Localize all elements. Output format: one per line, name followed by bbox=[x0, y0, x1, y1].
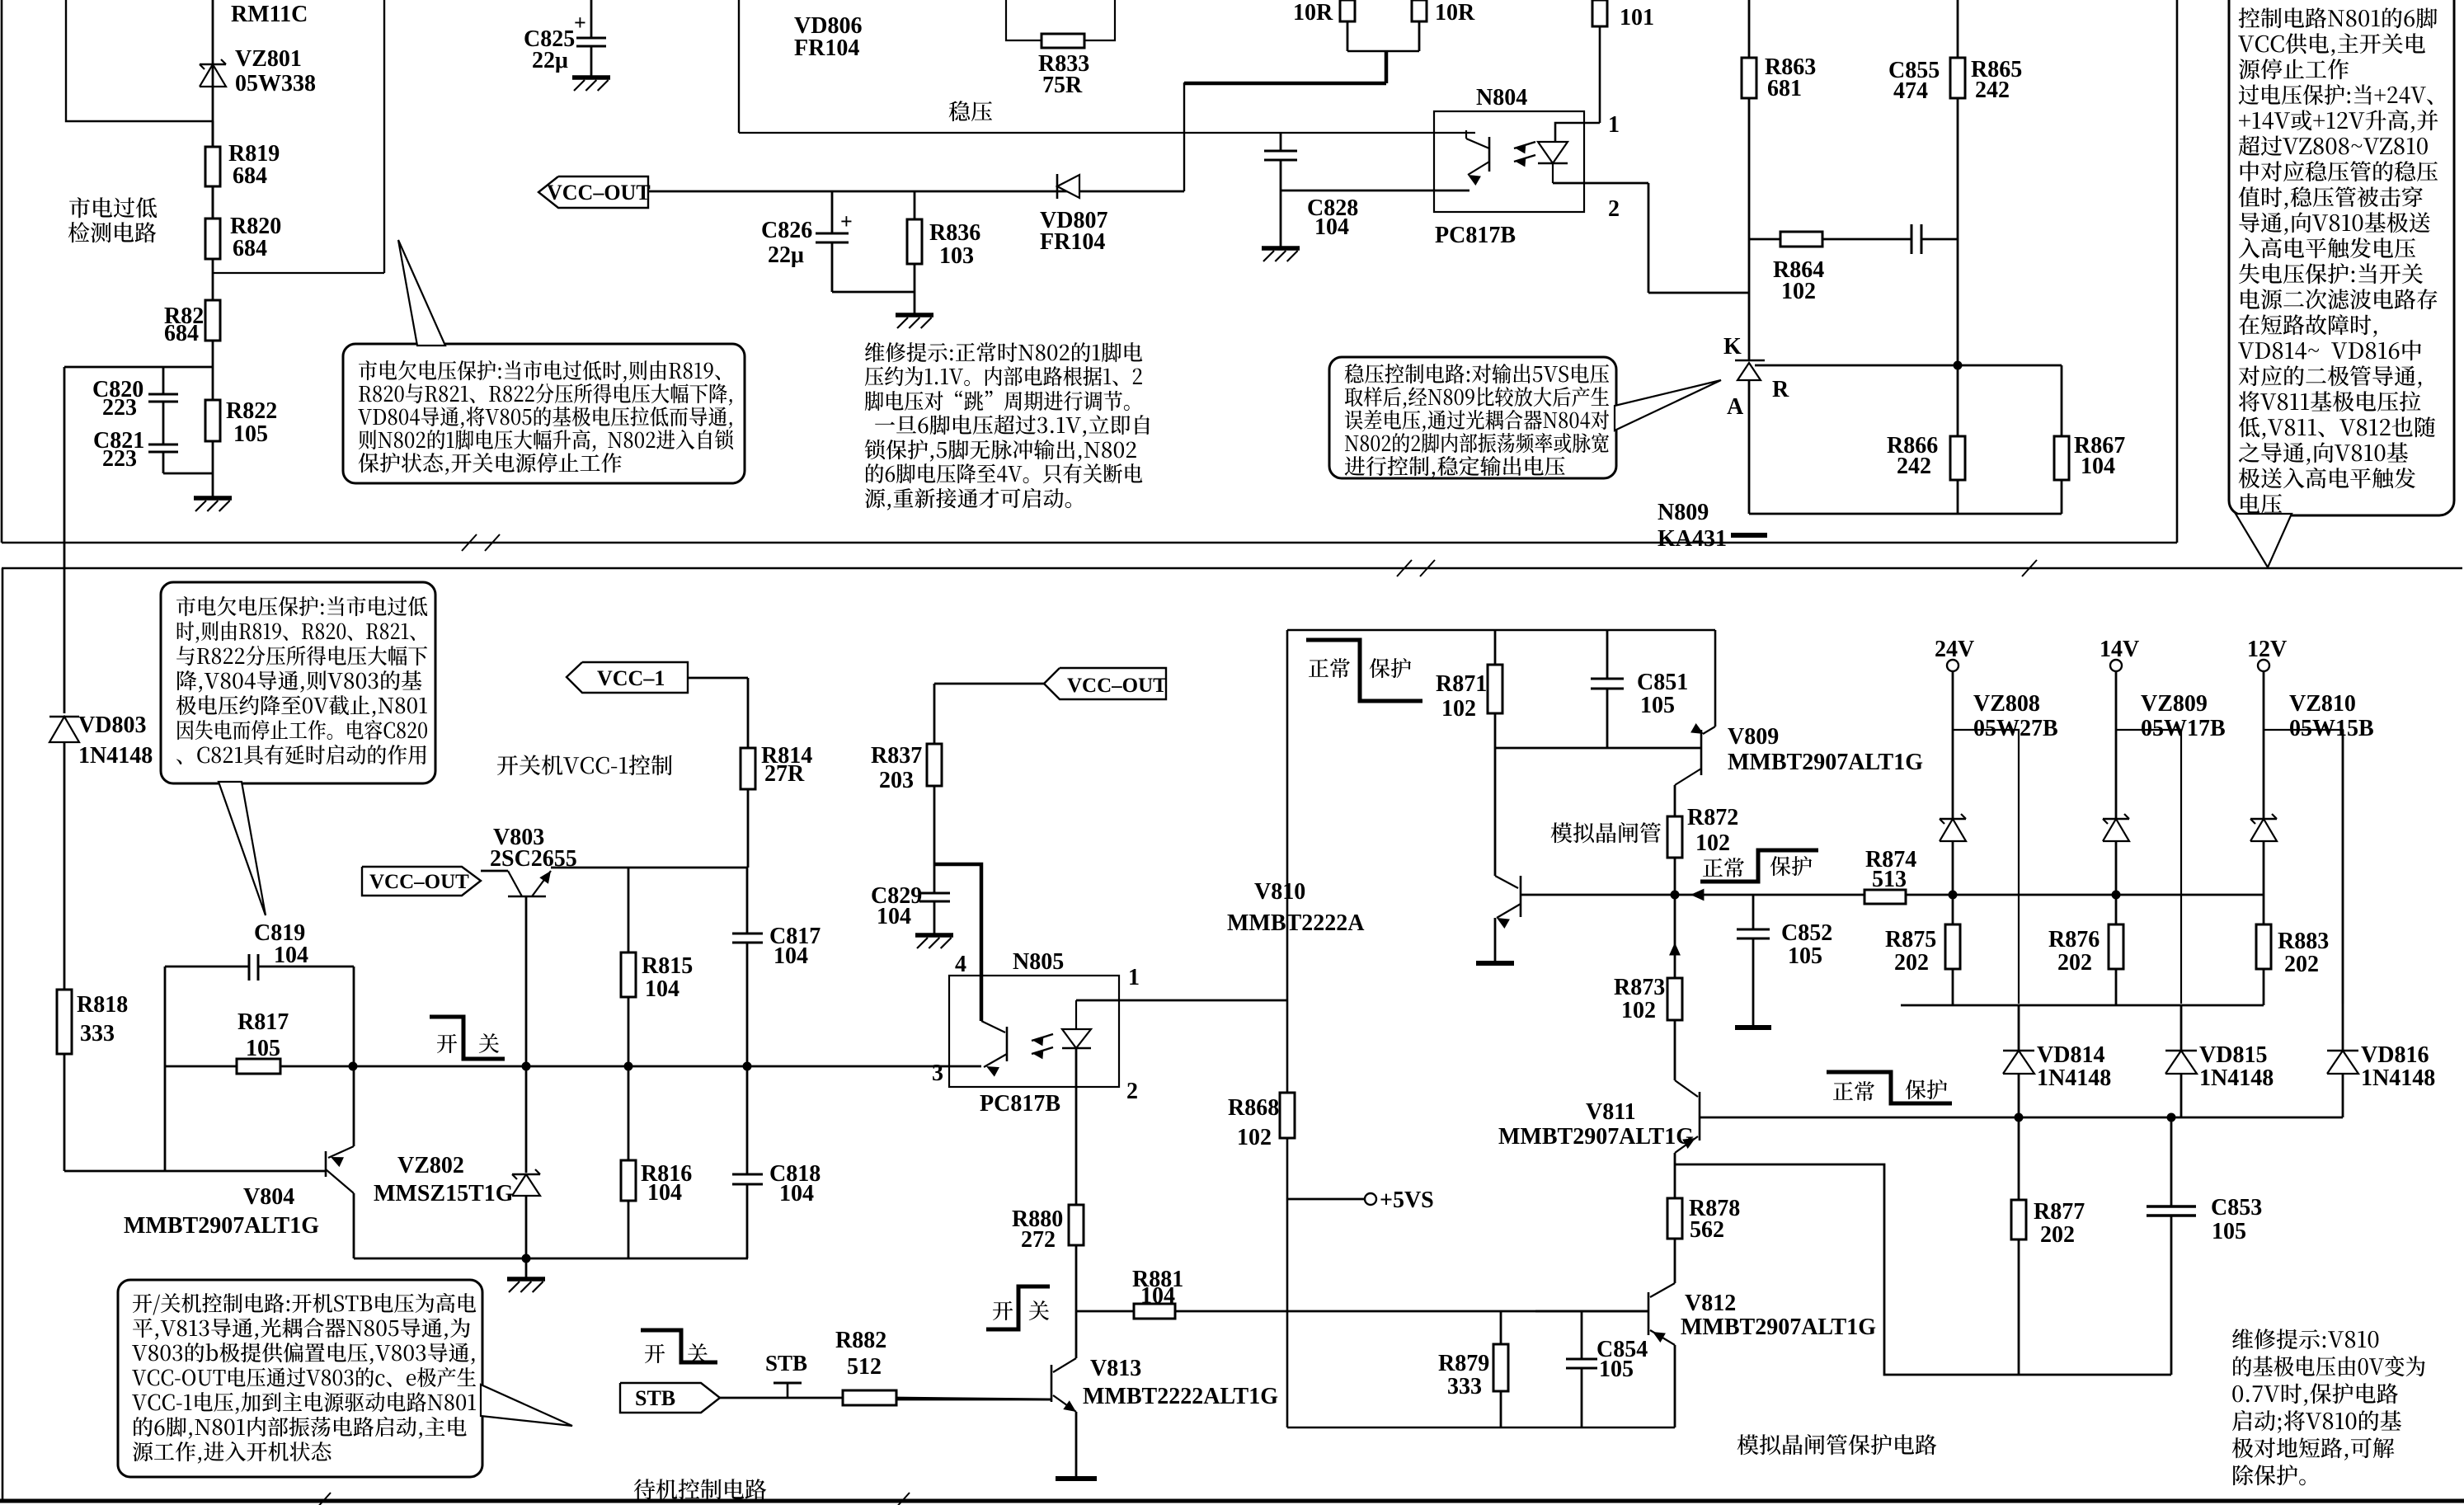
resistor R872 bbox=[1667, 816, 1682, 858]
bubble: top undervoltage protection note bbox=[343, 344, 745, 483]
zener VZ810 bbox=[2250, 818, 2277, 821]
svg-text:R873: R873 bbox=[1614, 975, 1665, 1000]
text: VD814~ VD816中 bbox=[2238, 340, 2421, 360]
svg-text:22μ: 22μ bbox=[768, 242, 804, 268]
resistor R819 bbox=[212, 121, 214, 147]
svg-text:05W27B: 05W27B bbox=[1973, 716, 2058, 741]
switch wire bbox=[353, 1065, 981, 1068]
text: 超过VZ808~VZ810 bbox=[2239, 135, 2428, 156]
svg-text:202: 202 bbox=[1894, 950, 1929, 976]
text: 平,V813导通,光耦合器N805导 bbox=[133, 1318, 470, 1340]
text: VD804导通,将V805的基极电压 bbox=[358, 407, 732, 429]
svg-text:VD803: VD803 bbox=[78, 713, 146, 738]
resistor R875 bbox=[1952, 895, 1954, 924]
text: +14V或+12V升高,并 bbox=[2239, 110, 2438, 133]
text: 电压 bbox=[2241, 493, 2282, 514]
flag VCC-1 bbox=[567, 662, 688, 693]
svg-text:202: 202 bbox=[2057, 950, 2092, 976]
text: 保护 bbox=[1770, 856, 1813, 876]
svg-text:104: 104 bbox=[774, 943, 808, 969]
text: 源工作,进入开机状态 bbox=[133, 1442, 332, 1464]
svg-text:1N4148: 1N4148 bbox=[78, 743, 153, 769]
resistor R874 bbox=[1864, 890, 1906, 904]
R881 wire right bbox=[1175, 1310, 1648, 1313]
svg-text:05W15B: 05W15B bbox=[2289, 716, 2374, 741]
text: 在短路故障时, bbox=[2239, 314, 2377, 337]
svg-text:+5VS: +5VS bbox=[1380, 1188, 1434, 1213]
bottom wire KA431 network bbox=[1749, 513, 2062, 515]
junction dot bbox=[1954, 361, 1963, 370]
text: 关 bbox=[1029, 1300, 1049, 1320]
text: R820与R821、R822分压所得 bbox=[359, 383, 732, 406]
svg-text:R875: R875 bbox=[1885, 927, 1936, 952]
svg-text:V804: V804 bbox=[243, 1184, 294, 1210]
svg-text:VZ810: VZ810 bbox=[2289, 691, 2356, 717]
step symbol 正常保护 #C bbox=[1827, 1072, 1952, 1103]
svg-text:27R: 27R bbox=[764, 761, 805, 787]
svg-text:242: 242 bbox=[1975, 78, 2010, 103]
N805 phototransistor bbox=[981, 1021, 1005, 1032]
capacitor C818 bbox=[746, 1066, 749, 1174]
svg-text:KA431: KA431 bbox=[1658, 526, 1727, 552]
svg-text:FR104: FR104 bbox=[794, 35, 859, 61]
svg-text:562: 562 bbox=[1690, 1217, 1724, 1243]
bubble tail 2 bbox=[1615, 380, 1721, 430]
svg-text:10R: 10R bbox=[1293, 0, 1333, 26]
svg-text:VD816: VD816 bbox=[2361, 1042, 2429, 1068]
text: 的6脚电压降至4V。只有关断电 bbox=[866, 463, 1142, 483]
junction dots sense wire bbox=[1949, 891, 1958, 900]
svg-text:C851: C851 bbox=[1637, 670, 1688, 695]
wire: main divider column top bbox=[212, 0, 214, 147]
svg-text:223: 223 bbox=[102, 446, 137, 472]
svg-text:1N4148: 1N4148 bbox=[2037, 1065, 2111, 1091]
resistor R833 bbox=[1042, 34, 1084, 48]
VZ802 zener bbox=[525, 1066, 528, 1173]
svg-text:512: 512 bbox=[847, 1354, 882, 1380]
svg-text:102: 102 bbox=[1781, 279, 1816, 304]
text: 正常 bbox=[1703, 858, 1744, 877]
V810 base wire / sense wire bbox=[1521, 894, 2264, 896]
svg-text:474: 474 bbox=[1893, 78, 1928, 104]
ground below R836 bbox=[896, 313, 933, 317]
svg-text:R836: R836 bbox=[929, 220, 980, 246]
diode VD814 bbox=[2018, 1005, 2020, 1051]
STB wire bbox=[720, 1397, 843, 1399]
N805 pin2 wire bbox=[1075, 1048, 1078, 1205]
text: 进行控制,稳定输出电压 bbox=[1345, 456, 1565, 478]
wire: VCC-OUT main bbox=[648, 190, 1184, 193]
resistor R837 bbox=[934, 683, 1044, 685]
branch corner 14V bbox=[2116, 730, 2181, 1004]
svg-text:681: 681 bbox=[1767, 76, 1802, 101]
ground VZ802 bbox=[525, 1258, 528, 1279]
svg-text:1: 1 bbox=[1608, 112, 1620, 138]
svg-text:MMSZ15T1G: MMSZ15T1G bbox=[374, 1181, 514, 1206]
ground below C825 bbox=[572, 75, 610, 80]
svg-text:102: 102 bbox=[1237, 1125, 1272, 1150]
text: 开 bbox=[437, 1034, 457, 1053]
svg-text:STB: STB bbox=[635, 1386, 675, 1410]
text: 、C821具有延时启动的作用 bbox=[176, 745, 426, 764]
svg-text:684: 684 bbox=[233, 236, 267, 261]
text: 对应的二极管导通, bbox=[2239, 365, 2422, 388]
wire: N804 pin4 collector wire bbox=[1474, 130, 1476, 133]
capacitor C825 branch bbox=[590, 0, 593, 38]
branch corner 12V bbox=[2264, 730, 2343, 1004]
text: 开/关机控制电路:开机STB电压为高 bbox=[133, 1293, 476, 1315]
step symbol 开关 #2 bbox=[986, 1286, 1050, 1329]
resistor R878 bbox=[1667, 1198, 1682, 1239]
text: 模拟晶闸管保护电路 bbox=[1737, 1434, 1937, 1455]
wire: cap branch bbox=[162, 367, 165, 394]
N804 phototransistor bbox=[1465, 130, 1467, 139]
zener VZ808 bbox=[1940, 818, 1966, 821]
svg-text:223: 223 bbox=[102, 395, 137, 421]
svg-text:RM11C: RM11C bbox=[231, 2, 308, 27]
diode VD803 bbox=[49, 716, 79, 718]
text: 开 bbox=[993, 1301, 1013, 1320]
text: 维修提示:V810 bbox=[2232, 1329, 2378, 1349]
svg-text:N804: N804 bbox=[1476, 85, 1527, 111]
text: 将V811基极电压拉 bbox=[2239, 391, 2421, 412]
svg-text:105: 105 bbox=[1599, 1357, 1634, 1382]
svg-text:VZ802: VZ802 bbox=[397, 1153, 464, 1178]
wire: VD803 to R818 bbox=[63, 742, 66, 990]
svg-text:202: 202 bbox=[2284, 952, 2319, 977]
V813 base wire bbox=[896, 1399, 1051, 1401]
bus below R875/R876/R883 bbox=[1901, 1004, 2264, 1007]
resistor 101 bbox=[1599, 26, 1601, 123]
svg-text:MMBT2222A: MMBT2222A bbox=[1227, 910, 1365, 936]
svg-text:2: 2 bbox=[1608, 196, 1620, 222]
resistor R864 bbox=[1780, 232, 1822, 247]
svg-text:102: 102 bbox=[1695, 830, 1730, 856]
svg-text:PC817B: PC817B bbox=[980, 1091, 1060, 1117]
text: 极电压约降至0V截止,N801 bbox=[176, 695, 427, 717]
right rail upper segment bbox=[1714, 630, 1717, 727]
V810 collector bbox=[1494, 748, 1497, 876]
resistor R836 bbox=[914, 191, 916, 219]
bubble: on/off control note bbox=[118, 1280, 482, 1477]
C855/R865 column bbox=[1957, 0, 1959, 58]
R833 loop bbox=[1006, 0, 1042, 40]
capacitor C853 bbox=[2170, 1117, 2173, 1206]
resistor R880 bbox=[1069, 1205, 1084, 1245]
bubble tail right bbox=[2236, 514, 2292, 567]
svg-text:V809: V809 bbox=[1728, 724, 1779, 750]
text: V803的b极提供偏置电压,V803 bbox=[132, 1343, 474, 1365]
svg-text:2SC2655: 2SC2655 bbox=[490, 846, 577, 872]
text: 导通,向V810基极送 bbox=[2239, 212, 2429, 235]
V812 emitter bbox=[1650, 1330, 1675, 1345]
capacitor C854 bbox=[1581, 1311, 1583, 1359]
wire 14V bbox=[2115, 671, 2118, 819]
border: top box bottom edge bbox=[2, 542, 2177, 544]
N802 box bottom edge / collector wire bbox=[739, 132, 1475, 134]
text: 取样后,经N809比较放大后产生 bbox=[1345, 387, 1609, 409]
svg-text:104: 104 bbox=[2081, 454, 2115, 479]
ground below C829 bbox=[915, 933, 953, 938]
svg-text:684: 684 bbox=[164, 321, 199, 346]
svg-text:104: 104 bbox=[1314, 214, 1349, 240]
svg-text:333: 333 bbox=[1447, 1374, 1482, 1399]
optocoupler N805 box bbox=[949, 976, 1119, 1087]
text: 市电欠电压保护:当市电过低 bbox=[176, 596, 427, 616]
text: 因失电而停止工作。电容C820 bbox=[177, 720, 427, 740]
V811 emitter bbox=[1675, 1136, 1698, 1153]
step symbol 开关 #3 bbox=[641, 1330, 717, 1362]
sense wire arrow bbox=[1690, 889, 1704, 901]
resistor 10R #1 bbox=[1347, 21, 1349, 51]
svg-text:1N4148: 1N4148 bbox=[2199, 1065, 2274, 1091]
wire: R818 to V804 base bbox=[63, 1054, 66, 1171]
svg-text:VCC–OUT: VCC–OUT bbox=[1067, 675, 1167, 697]
svg-text:VZ801: VZ801 bbox=[235, 46, 302, 72]
resistor R867 bbox=[2061, 365, 2063, 436]
svg-text:333: 333 bbox=[80, 1021, 115, 1046]
text: N802的2脚内部振荡频率或脉宽 bbox=[1345, 433, 1609, 453]
resistor 10R #2 bbox=[1418, 21, 1421, 51]
step symbol 正常保护 #B bbox=[1700, 850, 1818, 882]
svg-text:R872: R872 bbox=[1687, 805, 1738, 830]
text: 极送入高电平触发 bbox=[2239, 468, 2415, 488]
capacitor C826 bbox=[816, 233, 849, 235]
svg-text:101: 101 bbox=[1620, 5, 1654, 31]
STB flag bbox=[620, 1383, 720, 1413]
text: 检测电路 bbox=[68, 222, 157, 242]
diode VD815 bbox=[2180, 1005, 2183, 1051]
capacitor C825 bbox=[576, 37, 606, 40]
N804 pin2 wire bbox=[1553, 182, 1648, 185]
svg-text:05W338: 05W338 bbox=[235, 71, 316, 96]
svg-text:2: 2 bbox=[1126, 1079, 1138, 1104]
wire: pin1 of N804 bbox=[1555, 123, 1600, 142]
svg-text:STB: STB bbox=[765, 1351, 807, 1376]
V810 ground bbox=[1476, 961, 1514, 966]
text: 源,重新接通才可启动。 bbox=[865, 488, 1071, 510]
capacitor C828 branch bbox=[1280, 133, 1282, 151]
resistor R820 bbox=[212, 186, 214, 219]
text: VCC供电,主开关电 bbox=[2238, 33, 2425, 56]
bubble: regulation control note bbox=[1329, 357, 1616, 478]
text: 保护 bbox=[1370, 658, 1412, 678]
node: divider junction y445 bbox=[64, 366, 213, 369]
text: 一旦6脚电压超过3.1V,立即自 bbox=[875, 415, 1150, 437]
R863 column bbox=[1748, 0, 1751, 58]
svg-text:MMBT2907ALT1G: MMBT2907ALT1G bbox=[1498, 1124, 1694, 1150]
svg-text:R871: R871 bbox=[1436, 671, 1487, 697]
border: top box right edge bbox=[2176, 0, 2179, 543]
svg-text:102: 102 bbox=[1441, 696, 1476, 722]
wire 12V bbox=[2263, 671, 2265, 819]
wire: R822 to ground bbox=[212, 473, 214, 498]
text: VCC-1电压,加到主电源驱动电路N bbox=[132, 1392, 476, 1414]
zener VZ801 bbox=[200, 63, 226, 66]
bubble tail 3 bbox=[219, 782, 266, 915]
text: 脚电压对“跳”周期进行调节。 bbox=[865, 391, 1130, 411]
transistor V813 bbox=[1051, 1365, 1053, 1402]
KA431 ground bar bbox=[1731, 533, 1767, 538]
text: 启动;将V810的基 bbox=[2232, 1410, 2401, 1433]
text: 关 bbox=[479, 1033, 499, 1053]
text: 则N802的1脚电压大幅升高, N8 bbox=[359, 430, 733, 452]
svg-text:R877: R877 bbox=[2034, 1199, 2085, 1225]
V803 base wire bbox=[525, 896, 528, 1066]
text: 电源二次滤波电路存 bbox=[2241, 289, 2437, 309]
svg-text:202: 202 bbox=[2040, 1222, 2075, 1248]
svg-text:242: 242 bbox=[1897, 454, 1931, 479]
svg-text:R817: R817 bbox=[237, 1009, 289, 1035]
flag VCC-OUT (N805) bbox=[1044, 668, 1166, 699]
N805 pin1 wire bbox=[1076, 999, 1287, 1002]
border: top box left edge bbox=[1, 0, 3, 543]
resistor R877 bbox=[2018, 1117, 2020, 1200]
text: 时,则由R819、R820、R821 bbox=[177, 621, 415, 642]
V811 base / protect wire bbox=[1700, 1117, 2343, 1119]
junction dot bbox=[522, 1254, 531, 1263]
text: 稳压 bbox=[949, 101, 992, 121]
resistor R815 bbox=[628, 868, 630, 952]
text: 值时,稳压管被击穿 bbox=[2239, 186, 2423, 209]
resistor R817 bbox=[165, 1065, 237, 1068]
V804 emitter bbox=[353, 1066, 355, 1146]
border: bottom box top edge bbox=[2, 567, 2462, 570]
resistor R821 bbox=[212, 273, 214, 300]
resistor R871 bbox=[1494, 630, 1497, 665]
branch corner 24V bbox=[1953, 730, 2019, 1004]
junction dots on switch wire bbox=[349, 1062, 358, 1071]
wire: VCC-1 column bbox=[688, 677, 748, 680]
svg-text:C826: C826 bbox=[761, 218, 812, 243]
optocoupler N804 box bbox=[1434, 111, 1584, 212]
R877/C853 bottom wire bbox=[1675, 1164, 2171, 1375]
svg-text:VZ808: VZ808 bbox=[1973, 691, 2040, 717]
svg-text:N809: N809 bbox=[1658, 500, 1709, 525]
resistor R822 bbox=[212, 367, 214, 400]
capacitor C821 bbox=[148, 444, 178, 446]
RM11C box outline bbox=[66, 0, 213, 121]
svg-text:K: K bbox=[1723, 334, 1742, 360]
svg-text:N805: N805 bbox=[1013, 949, 1064, 975]
resistor R873 bbox=[1674, 895, 1676, 948]
svg-text:272: 272 bbox=[1021, 1227, 1056, 1253]
resistor R863 bbox=[1742, 58, 1756, 98]
capacitor C817 bbox=[746, 868, 749, 934]
V810 emitter bbox=[1497, 904, 1521, 918]
svg-text:513: 513 bbox=[1872, 867, 1907, 892]
loop: C819/R817 left leg bbox=[164, 966, 167, 1171]
V804 collector bbox=[326, 1169, 354, 1193]
loop: right leg bbox=[353, 966, 355, 1066]
text: 锁保护,5脚无脉冲输出,N802 bbox=[865, 440, 1136, 462]
svg-text:R: R bbox=[1772, 377, 1789, 402]
text: 中对应稳压管的稳压 bbox=[2241, 161, 2438, 181]
wire 24V bbox=[1952, 671, 1954, 819]
svg-text:V813: V813 bbox=[1090, 1356, 1141, 1381]
svg-text:+: + bbox=[574, 11, 586, 35]
N805 LED bbox=[1075, 1000, 1077, 1029]
svg-text:104: 104 bbox=[1140, 1283, 1175, 1309]
svg-text:105: 105 bbox=[2212, 1219, 2246, 1244]
V809 emitter bbox=[1703, 727, 1715, 734]
svg-text:VD814: VD814 bbox=[2037, 1042, 2104, 1068]
svg-text:75R: 75R bbox=[1042, 73, 1083, 98]
text: 与R822分压所得电压大幅下 bbox=[176, 646, 427, 665]
protection loop top rail bbox=[1287, 629, 1715, 632]
capacitor C826 branch bbox=[831, 191, 834, 233]
bubble tail 4 bbox=[481, 1385, 572, 1426]
KA431 anode wire bbox=[1748, 380, 1751, 514]
wire: box bottom-right connect bbox=[213, 272, 384, 274]
svg-text:104: 104 bbox=[645, 976, 679, 1002]
svg-text:MMBT2907ALT1G: MMBT2907ALT1G bbox=[1681, 1315, 1876, 1340]
text: 的6脚,N801内部振荡电路启动,主 bbox=[134, 1417, 466, 1439]
flag VCC-OUT (top) bbox=[538, 176, 648, 208]
text: 失电压保护:当开关 bbox=[2239, 263, 2423, 284]
svg-text:105: 105 bbox=[1640, 693, 1675, 718]
capacitor C856 on R864 wire bbox=[1822, 238, 1911, 241]
resistor R876 bbox=[2115, 895, 2118, 924]
svg-text:14V: 14V bbox=[2100, 637, 2139, 662]
resistor R816 bbox=[628, 1066, 630, 1160]
wire: pin2 to R863 column bbox=[1648, 292, 1749, 294]
bubble: bottom-left note bbox=[161, 582, 435, 783]
svg-text:05W17B: 05W17B bbox=[2141, 716, 2226, 741]
svg-text:R815: R815 bbox=[642, 953, 693, 979]
resistor R868 bbox=[1280, 1093, 1295, 1138]
svg-text:105: 105 bbox=[1788, 943, 1822, 969]
STB test point bbox=[787, 1383, 789, 1398]
C852 ground bar bbox=[1735, 1025, 1771, 1030]
capacitor C851 bbox=[1606, 630, 1609, 679]
protection loop left rail bbox=[1286, 630, 1289, 1427]
zener VZ809 bbox=[2103, 818, 2129, 821]
text: 压约为1.1V。内部电路根据1、2 bbox=[865, 366, 1142, 386]
step symbol 开关 #1 bbox=[430, 1017, 505, 1059]
svg-text:+: + bbox=[840, 209, 853, 233]
text: 开关机VCC-1控制 bbox=[497, 755, 672, 775]
flag VCC-OUT (V803) bbox=[362, 867, 481, 896]
svg-text:VCC–OUT: VCC–OUT bbox=[547, 181, 651, 205]
svg-text:22μ: 22μ bbox=[532, 48, 568, 73]
svg-text:10R: 10R bbox=[1435, 0, 1475, 26]
step symbol 正常保护 #A bbox=[1306, 640, 1422, 701]
resistor R866 bbox=[1957, 365, 1959, 436]
border: bottom box left edge bbox=[2, 568, 4, 1501]
text: 正常 bbox=[1833, 1081, 1874, 1101]
wire: 10R merge bbox=[1347, 50, 1419, 52]
bubble tail bbox=[398, 240, 445, 346]
bottom wire V804/VZ802 bbox=[354, 1258, 748, 1260]
transistor V811 bbox=[1699, 1092, 1701, 1141]
resistor R818 bbox=[57, 990, 72, 1054]
text: 误差电压,通过光耦合器N804对 bbox=[1345, 410, 1609, 432]
text: 0.7V时,保护电路 bbox=[2232, 1383, 2398, 1406]
N802 box left edge bbox=[738, 0, 740, 133]
shunt reg N809 KA431 bbox=[1735, 360, 1765, 362]
text: 开 bbox=[645, 1344, 665, 1363]
V813 collector bbox=[1075, 1311, 1078, 1358]
svg-text:R883: R883 bbox=[2278, 929, 2329, 954]
text: 维修提示:正常时N802的1脚电 bbox=[865, 342, 1142, 362]
text: 之导通,向V810基 bbox=[2239, 442, 2408, 464]
V809 base wire bbox=[1495, 747, 1701, 750]
svg-text:105: 105 bbox=[246, 1036, 280, 1061]
svg-text:R876: R876 bbox=[2048, 927, 2100, 952]
text: 降,V804导通,则V803的基 bbox=[177, 670, 421, 693]
text: 保护状态,开关电源停止工作 bbox=[359, 453, 622, 475]
